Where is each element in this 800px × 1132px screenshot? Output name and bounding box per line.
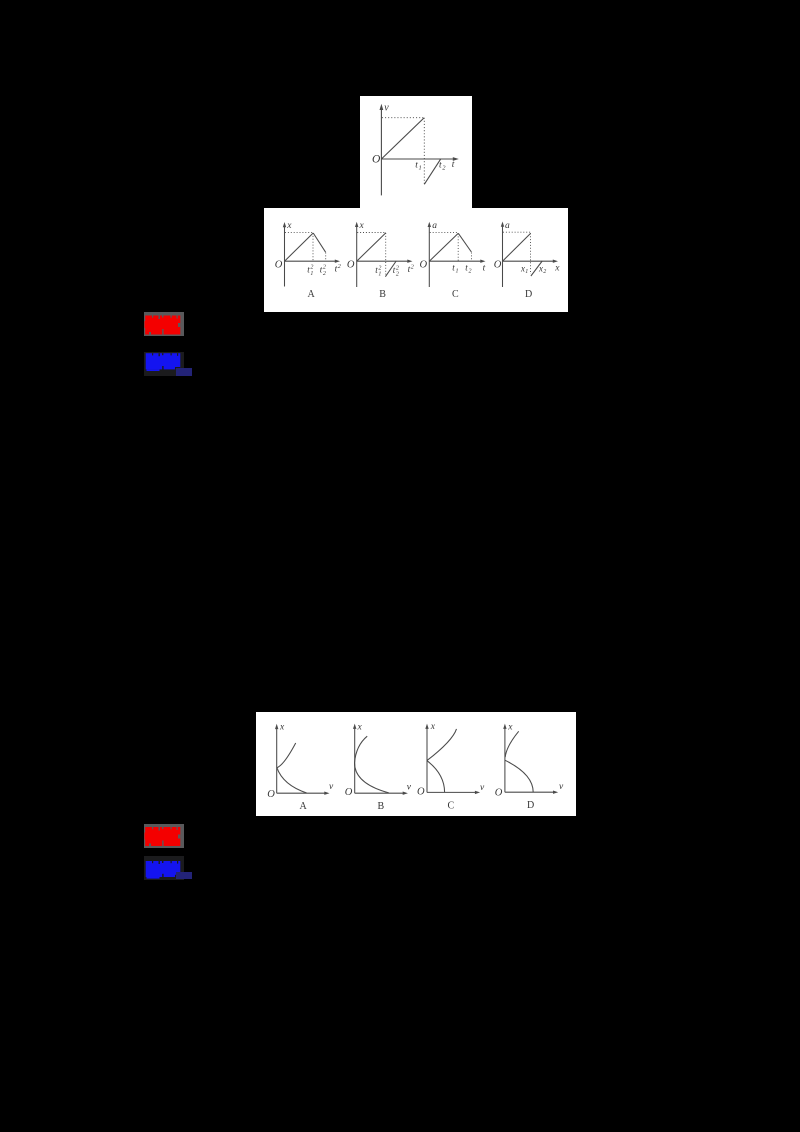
D y-axis [504,728,506,792]
B dotted horizontal [357,232,385,234]
svg-text:v: v [407,783,412,793]
C y arrowhead [428,222,431,227]
svg-text:a: a [432,221,437,231]
svg-text:O: O [345,787,353,798]
analysis badge 2 (blue) [144,856,184,880]
svg-text:O: O [372,153,381,165]
B x-axis [355,792,405,794]
svg-text:v: v [329,782,334,792]
D second segment below axis [531,261,542,276]
svg-text:2: 2 [411,265,414,271]
A descending line [313,233,325,252]
svg-text:O: O [267,789,275,800]
svg-text:x: x [430,722,436,732]
svg-text:2: 2 [396,265,399,271]
svg-text:2: 2 [323,265,326,271]
GRAPH B [355,728,405,793]
svg-text:x: x [507,722,513,732]
GRAPH C [429,226,481,287]
A x arrowhead [335,260,340,263]
second segment below axis [424,159,441,185]
GRAPH A [285,226,337,287]
svg-text:x: x [279,722,285,732]
C rising line [429,233,458,261]
svg-text:1: 1 [456,269,459,275]
svg-text:t: t [452,160,455,170]
svg-text:B: B [378,801,385,812]
svg-text:2: 2 [396,272,399,278]
svg-text:A: A [300,801,308,812]
svg-text:x: x [554,264,560,274]
svg-text:A: A [308,289,316,300]
D y-axis [502,226,504,288]
D x-axis [503,260,555,262]
A y-axis [276,728,278,793]
A y-axis [284,226,286,287]
C y-axis [426,728,428,792]
svg-text:1: 1 [525,269,528,275]
svg-text:x: x [359,221,365,231]
D x arrowhead [553,260,558,263]
rising line O to peak [381,118,424,159]
x-axis t [381,158,454,160]
panel 1: v-t graph image [360,96,472,208]
C short dotted vertical at t2 [471,253,473,261]
svg-text:O: O [417,787,425,798]
svg-text:v: v [480,783,485,793]
GRAPH B [357,226,409,287]
A dotted vertical at t1^2 [312,233,314,261]
D y arrowhead [501,222,504,227]
svg-text:O: O [494,260,502,271]
svg-text:O: O [275,260,283,271]
answer badge 2 (red) [144,824,184,848]
svg-text:2: 2 [378,265,381,271]
small navy block 2 [176,872,191,879]
C dotted horizontal [430,231,458,233]
D x arrowhead [553,791,558,794]
GRAPH D [505,728,555,792]
svg-text:v: v [559,782,564,792]
svg-text:a: a [505,221,510,231]
D dotted horizontal [503,231,530,233]
svg-text:1: 1 [378,272,381,278]
D dotted vertical below axis [530,233,532,274]
C x-axis [427,791,477,793]
B x-axis [357,260,409,262]
C lower curve [427,761,445,793]
C y-axis [428,226,430,287]
D upper curve [505,731,519,757]
panel 3: four x-v option graphs A-D [256,712,576,816]
analysis badge 1 (blue) [144,352,184,376]
GRAPH A [277,728,326,793]
svg-text:2: 2 [323,271,326,277]
panel 2: four option graphs A-D [264,208,568,312]
svg-text:t: t [483,263,486,273]
B x arrowhead [407,260,412,263]
svg-text:C: C [452,289,459,300]
svg-text:2: 2 [543,269,546,275]
svg-text:2: 2 [338,264,341,270]
svg-text:x: x [357,722,363,732]
C x-axis [429,260,481,262]
svg-text:2: 2 [310,265,313,271]
y-axis v [380,109,382,196]
svg-text:C: C [448,801,455,812]
C x arrowhead [475,791,480,794]
A y arrowhead [283,222,286,227]
D y arrowhead [503,724,506,729]
GRAPH C [427,728,477,792]
B x arrowhead [403,792,408,795]
C y arrowhead [425,724,428,729]
svg-text:1: 1 [310,271,313,277]
dotted vertical at t1 [423,118,425,185]
A rising line [285,233,314,261]
A x-axis [285,260,337,262]
svg-text:x: x [286,221,292,231]
A dotted horizontal [285,231,313,233]
A y arrowhead [275,724,278,729]
B dotted vertical below axis [385,233,387,275]
GRAPH D [503,226,555,288]
D rising line [503,233,531,261]
A lower curve [277,768,307,793]
C descending line [458,233,471,252]
svg-text:2: 2 [442,164,446,171]
svg-text:B: B [379,289,386,300]
y arrowhead [380,104,384,110]
A short dotted vertical at t2^2 [325,253,327,261]
B y arrowhead [353,724,356,729]
C x arrowhead [480,260,485,263]
answer badge 1 (red) [144,312,184,336]
svg-text:O: O [347,260,355,271]
A x-axis [277,792,326,794]
B second segment below axis [385,261,396,277]
svg-text:2: 2 [469,269,472,275]
svg-text:v: v [384,103,389,114]
small navy block 1 [176,368,191,376]
B rising line [357,233,386,261]
B y arrowhead [355,222,358,227]
x arrowhead [453,157,459,161]
B y-axis [354,728,356,793]
C dotted vertical at t1 [457,234,459,261]
svg-text:O: O [495,788,503,799]
svg-text:D: D [525,289,532,300]
D x-axis [505,791,555,793]
A upper curve [277,743,296,768]
D lower curve [505,760,533,792]
svg-text:O: O [420,259,428,270]
svg-text:1: 1 [419,164,422,171]
C upper curve [427,729,457,761]
B curve [355,736,389,793]
B y-axis [356,226,358,287]
svg-text:D: D [527,800,534,811]
dotted horizontal to peak [382,117,424,119]
A x arrowhead [324,792,329,795]
